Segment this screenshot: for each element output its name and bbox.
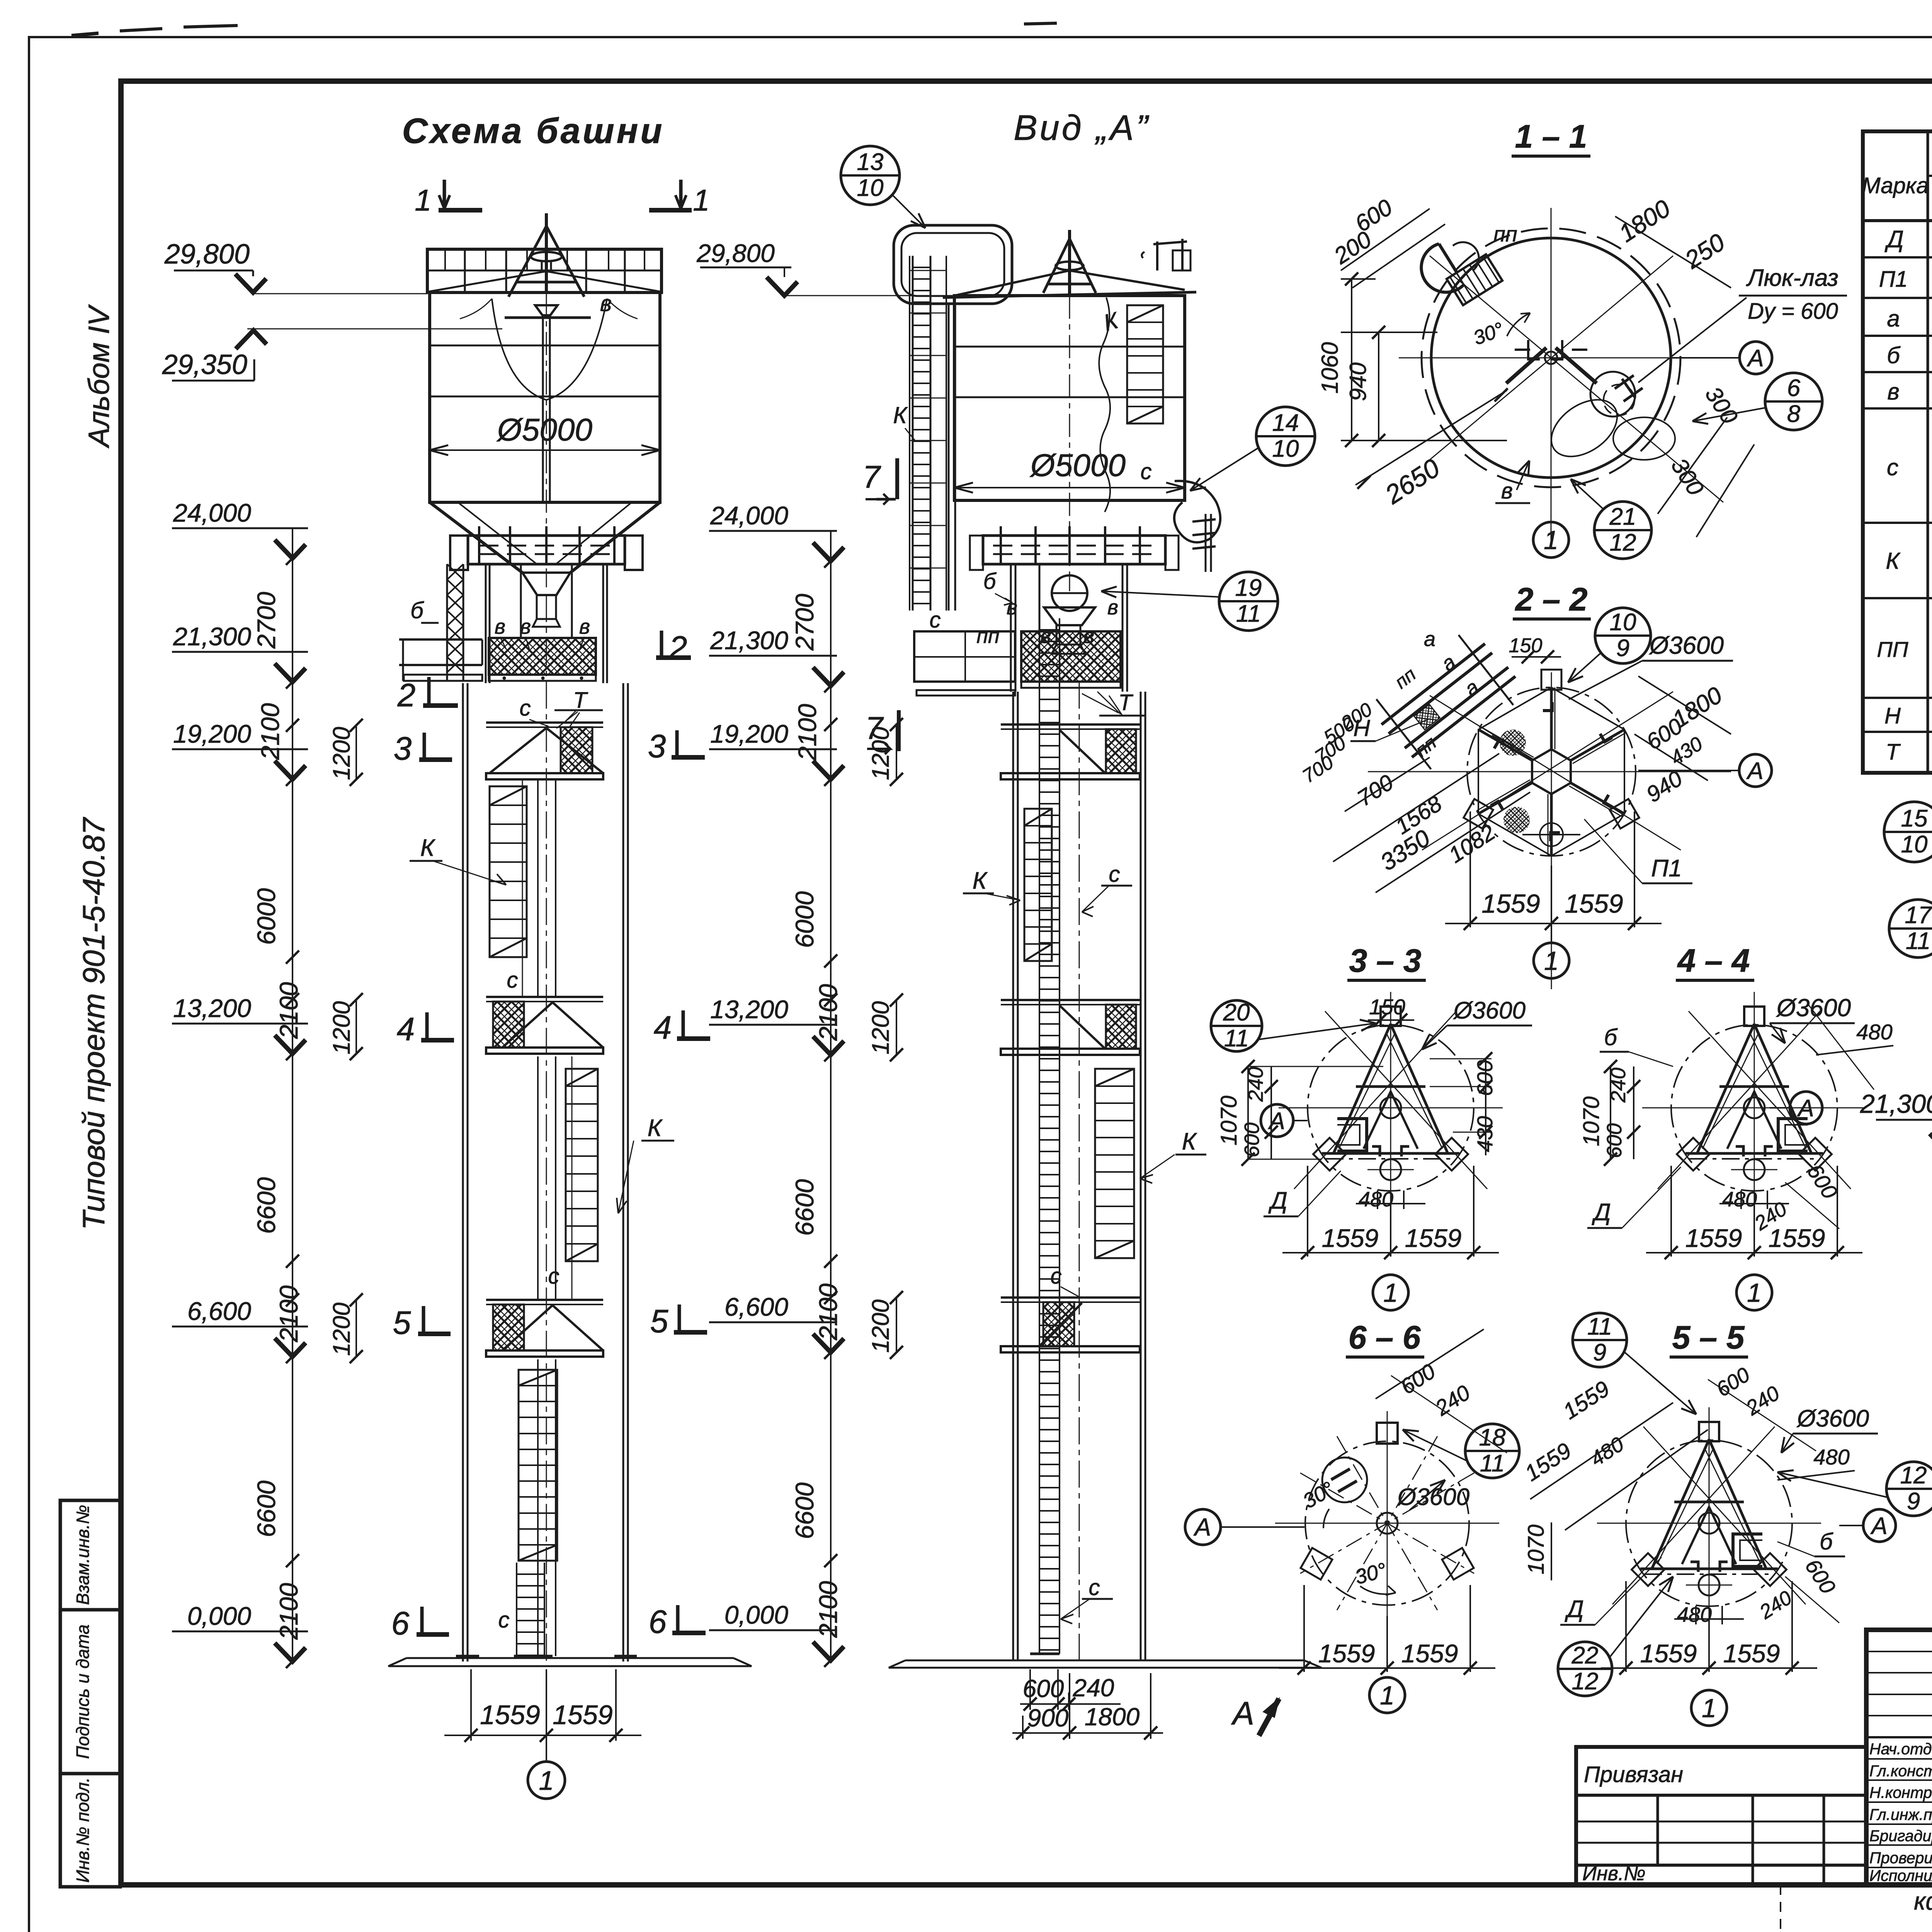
svg-text:20: 20 bbox=[1223, 999, 1250, 1026]
svg-text:21,300: 21,300 bbox=[710, 626, 788, 655]
svg-text:4: 4 bbox=[397, 1011, 415, 1047]
section 6-6: center circle bbox=[1377, 1513, 1398, 1534]
svg-text:17: 17 bbox=[1905, 902, 1932, 929]
table: row lines bbox=[1863, 256, 1932, 259]
section 4-4 drawing bbox=[1671, 1025, 1837, 1191]
svg-text:а: а bbox=[1424, 628, 1435, 651]
svg-text:б: б bbox=[1604, 1024, 1618, 1050]
svg-text:с: с bbox=[1089, 1575, 1100, 1600]
section 1-1: circled A bbox=[1740, 342, 1772, 374]
svg-text:2100: 2100 bbox=[793, 704, 821, 761]
section 2-2: bottom dims bbox=[1469, 811, 1471, 927]
section 2-2: rotated floor-beam detail bbox=[1367, 623, 1528, 776]
svg-text:11: 11 bbox=[1224, 1025, 1249, 1052]
svg-text:Схема башни: Схема башни bbox=[402, 111, 665, 151]
section 5-5 drawing bbox=[1626, 1440, 1792, 1606]
section 6-6: T detail circle bbox=[1322, 1458, 1367, 1502]
svg-text:1559: 1559 bbox=[1723, 1639, 1780, 1668]
right tower: tank ladder with cage bbox=[912, 256, 914, 611]
svg-text:Н: Н bbox=[1884, 703, 1901, 728]
margin box: Подпись и дата bbox=[60, 1610, 120, 1774]
right tower: support columns bbox=[1010, 564, 1012, 692]
svg-text:13: 13 bbox=[857, 149, 884, 175]
svg-text:в: в bbox=[1501, 478, 1513, 503]
svg-text:с: с bbox=[1051, 1264, 1062, 1289]
svg-text:Д: Д bbox=[1268, 1187, 1287, 1214]
svg-text:2: 2 bbox=[397, 677, 416, 713]
svg-text:А: А bbox=[1870, 1513, 1887, 1539]
svg-text:Ø3600: Ø3600 bbox=[1397, 1484, 1469, 1510]
svg-text:1559: 1559 bbox=[1769, 1224, 1825, 1252]
svg-text:19: 19 bbox=[1235, 575, 1262, 601]
svg-text:1070: 1070 bbox=[1524, 1524, 1549, 1574]
section 2-2: outer panel edges bbox=[1478, 687, 1624, 856]
title block: signature rows bbox=[1866, 1758, 1932, 1760]
svg-text:Т: Т bbox=[1118, 690, 1133, 715]
svg-text:Ø3600: Ø3600 bbox=[1453, 997, 1526, 1024]
svg-text:Ø3600: Ø3600 bbox=[1776, 994, 1851, 1022]
section 5-5: circled A right bbox=[1863, 1509, 1896, 1542]
svg-text:6600: 6600 bbox=[790, 1179, 819, 1236]
svg-text:б: б bbox=[983, 569, 997, 594]
svg-text:Т: Т bbox=[1886, 740, 1901, 765]
svg-text:1200: 1200 bbox=[867, 727, 894, 780]
bottom-left table: box bbox=[1576, 1747, 1866, 1885]
right tower: roof spike bbox=[1068, 230, 1071, 294]
svg-text:2700: 2700 bbox=[252, 592, 281, 649]
svg-text:10: 10 bbox=[1272, 435, 1299, 462]
left tower: platform 19200 bbox=[486, 721, 603, 724]
svg-text:11: 11 bbox=[1906, 928, 1930, 954]
svg-text:Привязан: Привязан bbox=[1584, 1762, 1683, 1787]
svg-text:11: 11 bbox=[1236, 600, 1261, 627]
left tower: roof band bbox=[427, 249, 662, 293]
svg-text:К: К bbox=[893, 402, 908, 428]
left tower: tank body bbox=[430, 293, 660, 502]
left tower: support columns bbox=[485, 564, 487, 683]
left tower level 29,350 bbox=[247, 328, 502, 330]
left tower: shaft centerline bbox=[546, 595, 547, 1665]
svg-text:Исполнил: Исполнил bbox=[1869, 1867, 1932, 1884]
svg-text:4: 4 bbox=[654, 1009, 672, 1046]
svg-text:а: а bbox=[1887, 306, 1900, 332]
svg-text:Ø3600: Ø3600 bbox=[1796, 1405, 1869, 1432]
svg-text:1559: 1559 bbox=[1685, 1224, 1742, 1252]
svg-text:пп: пп bbox=[976, 624, 999, 648]
right tower: weld seam squiggle bbox=[1099, 298, 1110, 512]
svg-text:900: 900 bbox=[1027, 1704, 1069, 1732]
svg-text:с: с bbox=[1109, 862, 1120, 887]
right tower: shaft columns bbox=[1012, 692, 1014, 1660]
left tower: ladder panel lower bbox=[519, 1370, 557, 1561]
svg-text:в: в bbox=[1007, 596, 1017, 619]
svg-text:1800: 1800 bbox=[1085, 1703, 1140, 1731]
section 1-1: axis circle 1 bbox=[1533, 522, 1569, 558]
svg-text:Проверил: Проверил bbox=[1869, 1849, 1932, 1867]
svg-text:А: А bbox=[1267, 1108, 1285, 1134]
svg-text:600: 600 bbox=[1023, 1675, 1064, 1702]
left tower: drain cone and pipe bbox=[522, 573, 570, 595]
svg-text:Д: Д bbox=[1884, 226, 1904, 253]
svg-text:1559: 1559 bbox=[1565, 889, 1623, 918]
section 3-3 drawing bbox=[1308, 1025, 1474, 1191]
left tower: roof spike bbox=[545, 213, 548, 293]
svg-text:1: 1 bbox=[1544, 526, 1558, 555]
svg-text:Бригадир: Бригадир bbox=[1869, 1827, 1932, 1845]
svg-text:6,600: 6,600 bbox=[724, 1293, 788, 1321]
section 2-2: vertex squares bbox=[1541, 670, 1561, 690]
svg-text:П1: П1 bbox=[1651, 855, 1682, 882]
svg-text:1070: 1070 bbox=[1216, 1095, 1242, 1145]
table: outer box bbox=[1863, 131, 1932, 773]
svg-text:с: с bbox=[930, 607, 941, 633]
svg-text:Взам.инв.№: Взам.инв.№ bbox=[73, 1505, 93, 1605]
svg-text:2100: 2100 bbox=[274, 982, 303, 1039]
section 1-1: manhole bbox=[1590, 372, 1635, 417]
left tower: tank cone bbox=[430, 502, 522, 573]
svg-text:П1: П1 bbox=[1879, 267, 1908, 292]
svg-text:А: А bbox=[1746, 345, 1764, 372]
callout 20/11 bbox=[1211, 1000, 1262, 1051]
svg-text:Ø5000: Ø5000 bbox=[496, 412, 592, 447]
svg-text:Н.контр.: Н.контр. bbox=[1869, 1784, 1932, 1801]
svg-text:1: 1 bbox=[415, 183, 431, 217]
svg-text:в: в bbox=[579, 615, 590, 638]
left tower: roof slopes bbox=[428, 271, 546, 292]
svg-text:480: 480 bbox=[1677, 1603, 1712, 1626]
right tower: tank body bbox=[954, 296, 1185, 500]
svg-text:8: 8 bbox=[1787, 401, 1801, 427]
svg-text:12: 12 bbox=[1610, 529, 1636, 556]
section 2-2: circled A bbox=[1739, 754, 1772, 787]
left tower: left platform 21300 bbox=[399, 638, 482, 641]
torn paper dashes top bbox=[71, 33, 99, 36]
section 2-2: small circle bbox=[1540, 823, 1563, 846]
callout 6/8 bbox=[1765, 373, 1822, 430]
section 1-1: 30 deg arc bbox=[1507, 313, 1530, 336]
svg-text:18: 18 bbox=[1479, 1424, 1506, 1451]
section 6-6: dashdot circle bbox=[1305, 1441, 1469, 1605]
svg-text:1: 1 bbox=[1380, 1681, 1395, 1710]
svg-text:2700: 2700 bbox=[790, 594, 819, 651]
svg-text:29,800: 29,800 bbox=[164, 239, 250, 270]
callout 15/10 bbox=[1884, 802, 1932, 862]
left tower: water curve bbox=[492, 299, 607, 400]
right tower: platform 6600 bbox=[1001, 1296, 1140, 1299]
section 1-1: crosshairs bbox=[1551, 208, 1552, 544]
svg-text:К: К bbox=[420, 835, 436, 861]
section 6-6: axis circle bbox=[1369, 1677, 1405, 1713]
right tower: lifting triangle bbox=[1043, 239, 1096, 293]
svg-text:150: 150 bbox=[1509, 634, 1543, 657]
right tower: left platform 21300 box bbox=[914, 631, 1015, 682]
svg-text:Альбом IV: Альбом IV bbox=[83, 304, 116, 449]
left tower: inner strut columns bbox=[537, 779, 539, 997]
table: verticals bbox=[1927, 131, 1929, 773]
svg-text:в: в bbox=[520, 615, 531, 638]
callout 12/9 bbox=[1886, 1462, 1932, 1516]
left tower bottom dims 1559 1559 bbox=[470, 1669, 472, 1741]
margin box: Инв.№ подл. bbox=[60, 1774, 120, 1887]
section 6-6: radial lines bbox=[1275, 1523, 1499, 1524]
svg-text:6: 6 bbox=[1787, 375, 1801, 401]
callout 18/11 bbox=[1465, 1424, 1519, 1478]
left tower: bottom ladder rungs bbox=[516, 1563, 517, 1656]
svg-text:1: 1 bbox=[1747, 1278, 1762, 1308]
section 6-6: rotated squares bbox=[1301, 1548, 1332, 1580]
svg-text:5 – 5: 5 – 5 bbox=[1672, 1319, 1745, 1355]
right tower: K panel in tank bbox=[1127, 305, 1163, 423]
svg-text:К: К bbox=[973, 867, 988, 894]
svg-text:Д: Д bbox=[1592, 1199, 1611, 1226]
section 6-6: apex square bbox=[1377, 1423, 1398, 1444]
right tower: platform 13200 bbox=[1001, 999, 1140, 1001]
svg-text:22: 22 bbox=[1571, 1642, 1599, 1669]
callout 11/9 bbox=[1573, 1313, 1627, 1367]
svg-text:24,000: 24,000 bbox=[710, 501, 788, 530]
left tower axis circle 1 bbox=[546, 1741, 547, 1762]
svg-text:1559: 1559 bbox=[1640, 1639, 1697, 1668]
svg-text:А: А bbox=[1796, 1095, 1814, 1122]
left tower: support ring bbox=[468, 536, 625, 564]
svg-text:6000: 6000 bbox=[252, 888, 281, 945]
svg-text:Гл.инж.пр.: Гл.инж.пр. bbox=[1869, 1806, 1932, 1823]
svg-text:21,300: 21,300 bbox=[1860, 1089, 1932, 1119]
svg-text:12: 12 bbox=[1572, 1668, 1599, 1695]
svg-text:480: 480 bbox=[1359, 1188, 1393, 1211]
right tower: K panel lower bbox=[1095, 1069, 1134, 1258]
svg-text:2100: 2100 bbox=[274, 1583, 303, 1640]
svg-text:9: 9 bbox=[1593, 1339, 1606, 1366]
callout 19/11 bbox=[1219, 572, 1278, 631]
svg-text:3: 3 bbox=[394, 730, 412, 767]
svg-text:б: б bbox=[410, 597, 424, 623]
svg-text:13,200: 13,200 bbox=[710, 995, 788, 1024]
svg-text:К: К bbox=[648, 1115, 663, 1141]
right tower: support ring bbox=[983, 536, 1165, 564]
svg-text:150: 150 bbox=[1369, 995, 1405, 1019]
svg-text:940: 940 bbox=[1345, 362, 1371, 401]
svg-text:240: 240 bbox=[1073, 1674, 1114, 1702]
svg-text:1200: 1200 bbox=[867, 1001, 894, 1054]
svg-text:1 – 1: 1 – 1 bbox=[1515, 118, 1587, 155]
left tower: platform 6600 bbox=[486, 1299, 603, 1301]
section 6-6: bottom dims bbox=[1303, 1585, 1305, 1672]
svg-text:Ø5000: Ø5000 bbox=[1029, 448, 1126, 483]
section 1-1: ladder hatch block bbox=[1447, 254, 1502, 305]
left tower: ladder panel mid bbox=[566, 1069, 598, 1261]
svg-text:2100: 2100 bbox=[814, 1283, 842, 1340]
left tower: dim Ø5000 bbox=[430, 449, 660, 451]
svg-text:Марка: Марка bbox=[1862, 173, 1929, 198]
svg-text:А: А bbox=[1746, 758, 1763, 784]
svg-text:6600: 6600 bbox=[252, 1480, 281, 1537]
right tower: roof handrail right bbox=[1153, 239, 1187, 270]
svg-text:6: 6 bbox=[649, 1604, 667, 1640]
svg-text:1200: 1200 bbox=[867, 1299, 894, 1353]
svg-text:1: 1 bbox=[1544, 946, 1559, 976]
left tower: overflow funnel and pipe bbox=[535, 305, 558, 315]
left chain sub dims 1200 bbox=[355, 725, 357, 779]
section 2-2: crosshair bbox=[1551, 672, 1552, 989]
section 2-2: axis circle 1 bbox=[1551, 927, 1552, 943]
svg-text:1: 1 bbox=[1702, 1694, 1716, 1723]
callout 14/10 bbox=[1256, 407, 1315, 466]
svg-text:6600: 6600 bbox=[790, 1482, 819, 1539]
svg-text:в: в bbox=[600, 291, 612, 316]
section 1-1: chevron brace bbox=[1506, 348, 1597, 383]
svg-text:б: б bbox=[1887, 342, 1901, 368]
section 1-1: center hub bbox=[1545, 352, 1557, 364]
svg-text:пп: пп bbox=[1493, 222, 1517, 246]
svg-text:3: 3 bbox=[648, 728, 666, 764]
svg-text:3 – 3: 3 – 3 bbox=[1349, 942, 1422, 979]
svg-text:А: А bbox=[1193, 1513, 1211, 1541]
svg-text:2 – 2: 2 – 2 bbox=[1515, 581, 1588, 617]
svg-text:6,600: 6,600 bbox=[187, 1297, 251, 1325]
left tower: tank centerline bbox=[546, 293, 547, 587]
section 2-2: hatch blobs bbox=[1500, 730, 1526, 756]
svg-text:6 – 6: 6 – 6 bbox=[1349, 1319, 1421, 1355]
svg-text:1559: 1559 bbox=[1481, 889, 1540, 918]
svg-text:600: 600 bbox=[1603, 1123, 1626, 1158]
left tower: column base plates bbox=[456, 1655, 479, 1658]
right tower: drain with valve circle bbox=[1052, 575, 1087, 611]
left tower: vent mushroom bbox=[531, 252, 562, 261]
section 1-1: main circle bbox=[1431, 238, 1671, 478]
svg-text:1559: 1559 bbox=[1405, 1224, 1462, 1252]
left tower: K panel upper bbox=[490, 786, 527, 957]
section 2-2: dashdot circle bbox=[1467, 687, 1636, 856]
right tower: overflow pipe loop bbox=[894, 225, 1012, 304]
svg-text:13,200: 13,200 bbox=[173, 994, 251, 1022]
svg-text:600: 600 bbox=[1473, 1060, 1497, 1096]
left tower: crosshatch band 21300 bbox=[489, 638, 596, 675]
svg-text:9: 9 bbox=[1907, 1488, 1920, 1515]
svg-text:9: 9 bbox=[1616, 635, 1629, 662]
right tower: K panel upper bbox=[1024, 809, 1052, 961]
svg-text:1: 1 bbox=[693, 183, 709, 217]
right tower: platform 19200 bbox=[1001, 723, 1140, 726]
svg-text:с: с bbox=[548, 1264, 560, 1289]
svg-text:11: 11 bbox=[1587, 1313, 1612, 1340]
right tower: roof cone bbox=[954, 270, 1070, 296]
svg-text:1200: 1200 bbox=[328, 1303, 355, 1356]
svg-text:6000: 6000 bbox=[790, 891, 819, 948]
svg-text:5: 5 bbox=[393, 1304, 411, 1341]
section 6-6: circled A left with leader bbox=[1185, 1509, 1221, 1545]
svg-text:4 – 4: 4 – 4 bbox=[1677, 942, 1750, 979]
svg-text:2100: 2100 bbox=[256, 703, 284, 760]
svg-text:с: с bbox=[520, 696, 531, 721]
svg-text:Инв.№ подл.: Инв.№ подл. bbox=[73, 1777, 93, 1883]
right tower: continuous ladder bbox=[1039, 618, 1040, 1654]
svg-text:0,000: 0,000 bbox=[187, 1602, 251, 1630]
svg-text:1200: 1200 bbox=[328, 1001, 355, 1054]
svg-text:6600: 6600 bbox=[252, 1177, 281, 1234]
right tower dimension chain bbox=[830, 561, 832, 1660]
fold mark bottom bbox=[1780, 1885, 1781, 1932]
right tower bottom dims 900 1800 bbox=[1022, 1716, 1024, 1739]
title block: thin top rows bbox=[1866, 1651, 1932, 1652]
right tower bottom dims 600 240 bbox=[1029, 1669, 1031, 1710]
svg-text:480: 480 bbox=[1856, 1020, 1892, 1044]
svg-text:1: 1 bbox=[539, 1765, 554, 1796]
svg-text:Люк-лаз: Люк-лаз bbox=[1746, 265, 1838, 291]
svg-text:14: 14 bbox=[1272, 410, 1299, 436]
right tower: foundation bbox=[905, 1660, 1304, 1662]
svg-text:2: 2 bbox=[669, 629, 687, 666]
svg-text:1559: 1559 bbox=[553, 1700, 613, 1730]
svg-text:5: 5 bbox=[650, 1303, 668, 1339]
svg-text:21: 21 bbox=[1609, 503, 1636, 530]
section 4-4: circled A right bbox=[1790, 1092, 1822, 1124]
svg-text:10: 10 bbox=[1610, 609, 1636, 636]
svg-text:ПП: ПП bbox=[1877, 637, 1908, 662]
right tower: gusset ticks right bbox=[1192, 519, 1216, 522]
left tower dimension chain bbox=[292, 558, 293, 1662]
svg-text:12: 12 bbox=[1900, 1462, 1927, 1489]
svg-text:1200: 1200 bbox=[328, 727, 355, 780]
svg-text:29,350: 29,350 bbox=[162, 349, 247, 380]
svg-text:10: 10 bbox=[857, 175, 884, 201]
svg-text:Dy = 600: Dy = 600 bbox=[1748, 299, 1838, 324]
right chain sub dims 1200 bbox=[896, 724, 897, 779]
svg-text:7: 7 bbox=[862, 459, 881, 495]
section 1-1: ladder hook bbox=[1421, 244, 1464, 292]
callout 21/12 bbox=[1594, 502, 1651, 559]
left tower: shaft columns bbox=[462, 683, 464, 1662]
svg-text:Гл.констр.: Гл.констр. bbox=[1869, 1762, 1932, 1780]
svg-text:Ø3600: Ø3600 bbox=[1649, 631, 1724, 659]
svg-text:Типовой проект 901-5-40.87: Типовой проект 901-5-40.87 bbox=[77, 817, 111, 1230]
svg-text:Инв.№: Инв.№ bbox=[1582, 1862, 1646, 1885]
svg-text:10: 10 bbox=[1901, 831, 1928, 858]
svg-text:1559: 1559 bbox=[1318, 1639, 1375, 1668]
right tower: crosshatch band 21300 bbox=[1021, 631, 1121, 682]
svg-text:в: в bbox=[495, 615, 505, 638]
svg-text:480: 480 bbox=[1722, 1188, 1757, 1211]
section 2-2: spider hexagon bbox=[1532, 749, 1571, 794]
callout 13/10 bbox=[841, 146, 900, 205]
svg-text:1070: 1070 bbox=[1579, 1096, 1604, 1146]
callout 22/12 bbox=[1558, 1642, 1612, 1696]
svg-text:К: К bbox=[1182, 1128, 1197, 1155]
svg-text:А: А bbox=[1231, 1695, 1254, 1731]
svg-text:21,300: 21,300 bbox=[173, 622, 251, 651]
svg-text:с: с bbox=[507, 968, 518, 993]
svg-text:б: б bbox=[1820, 1529, 1833, 1554]
svg-text:6: 6 bbox=[391, 1605, 410, 1641]
svg-text:с: с bbox=[1141, 459, 1152, 484]
left tower: foundation bbox=[406, 1657, 733, 1659]
svg-text:24,000: 24,000 bbox=[173, 498, 251, 527]
svg-text:1559: 1559 bbox=[1401, 1639, 1458, 1668]
svg-text:1559: 1559 bbox=[1322, 1224, 1379, 1252]
svg-text:с: с bbox=[1887, 454, 1898, 480]
table: header horizontals bbox=[1928, 175, 1932, 177]
svg-text:480: 480 bbox=[1813, 1445, 1849, 1469]
svg-text:с: с bbox=[498, 1607, 510, 1633]
left tower: platform 13200 bbox=[486, 996, 603, 998]
svg-text:29,800: 29,800 bbox=[696, 239, 775, 267]
left tower: lifting triangle bbox=[509, 226, 584, 297]
svg-text:2100: 2100 bbox=[814, 984, 842, 1041]
svg-text:1: 1 bbox=[1383, 1278, 1398, 1308]
svg-text:0,000: 0,000 bbox=[724, 1600, 788, 1629]
margin box: Взам.инв.№ bbox=[60, 1500, 120, 1610]
left tower: access truss column bbox=[446, 564, 448, 680]
